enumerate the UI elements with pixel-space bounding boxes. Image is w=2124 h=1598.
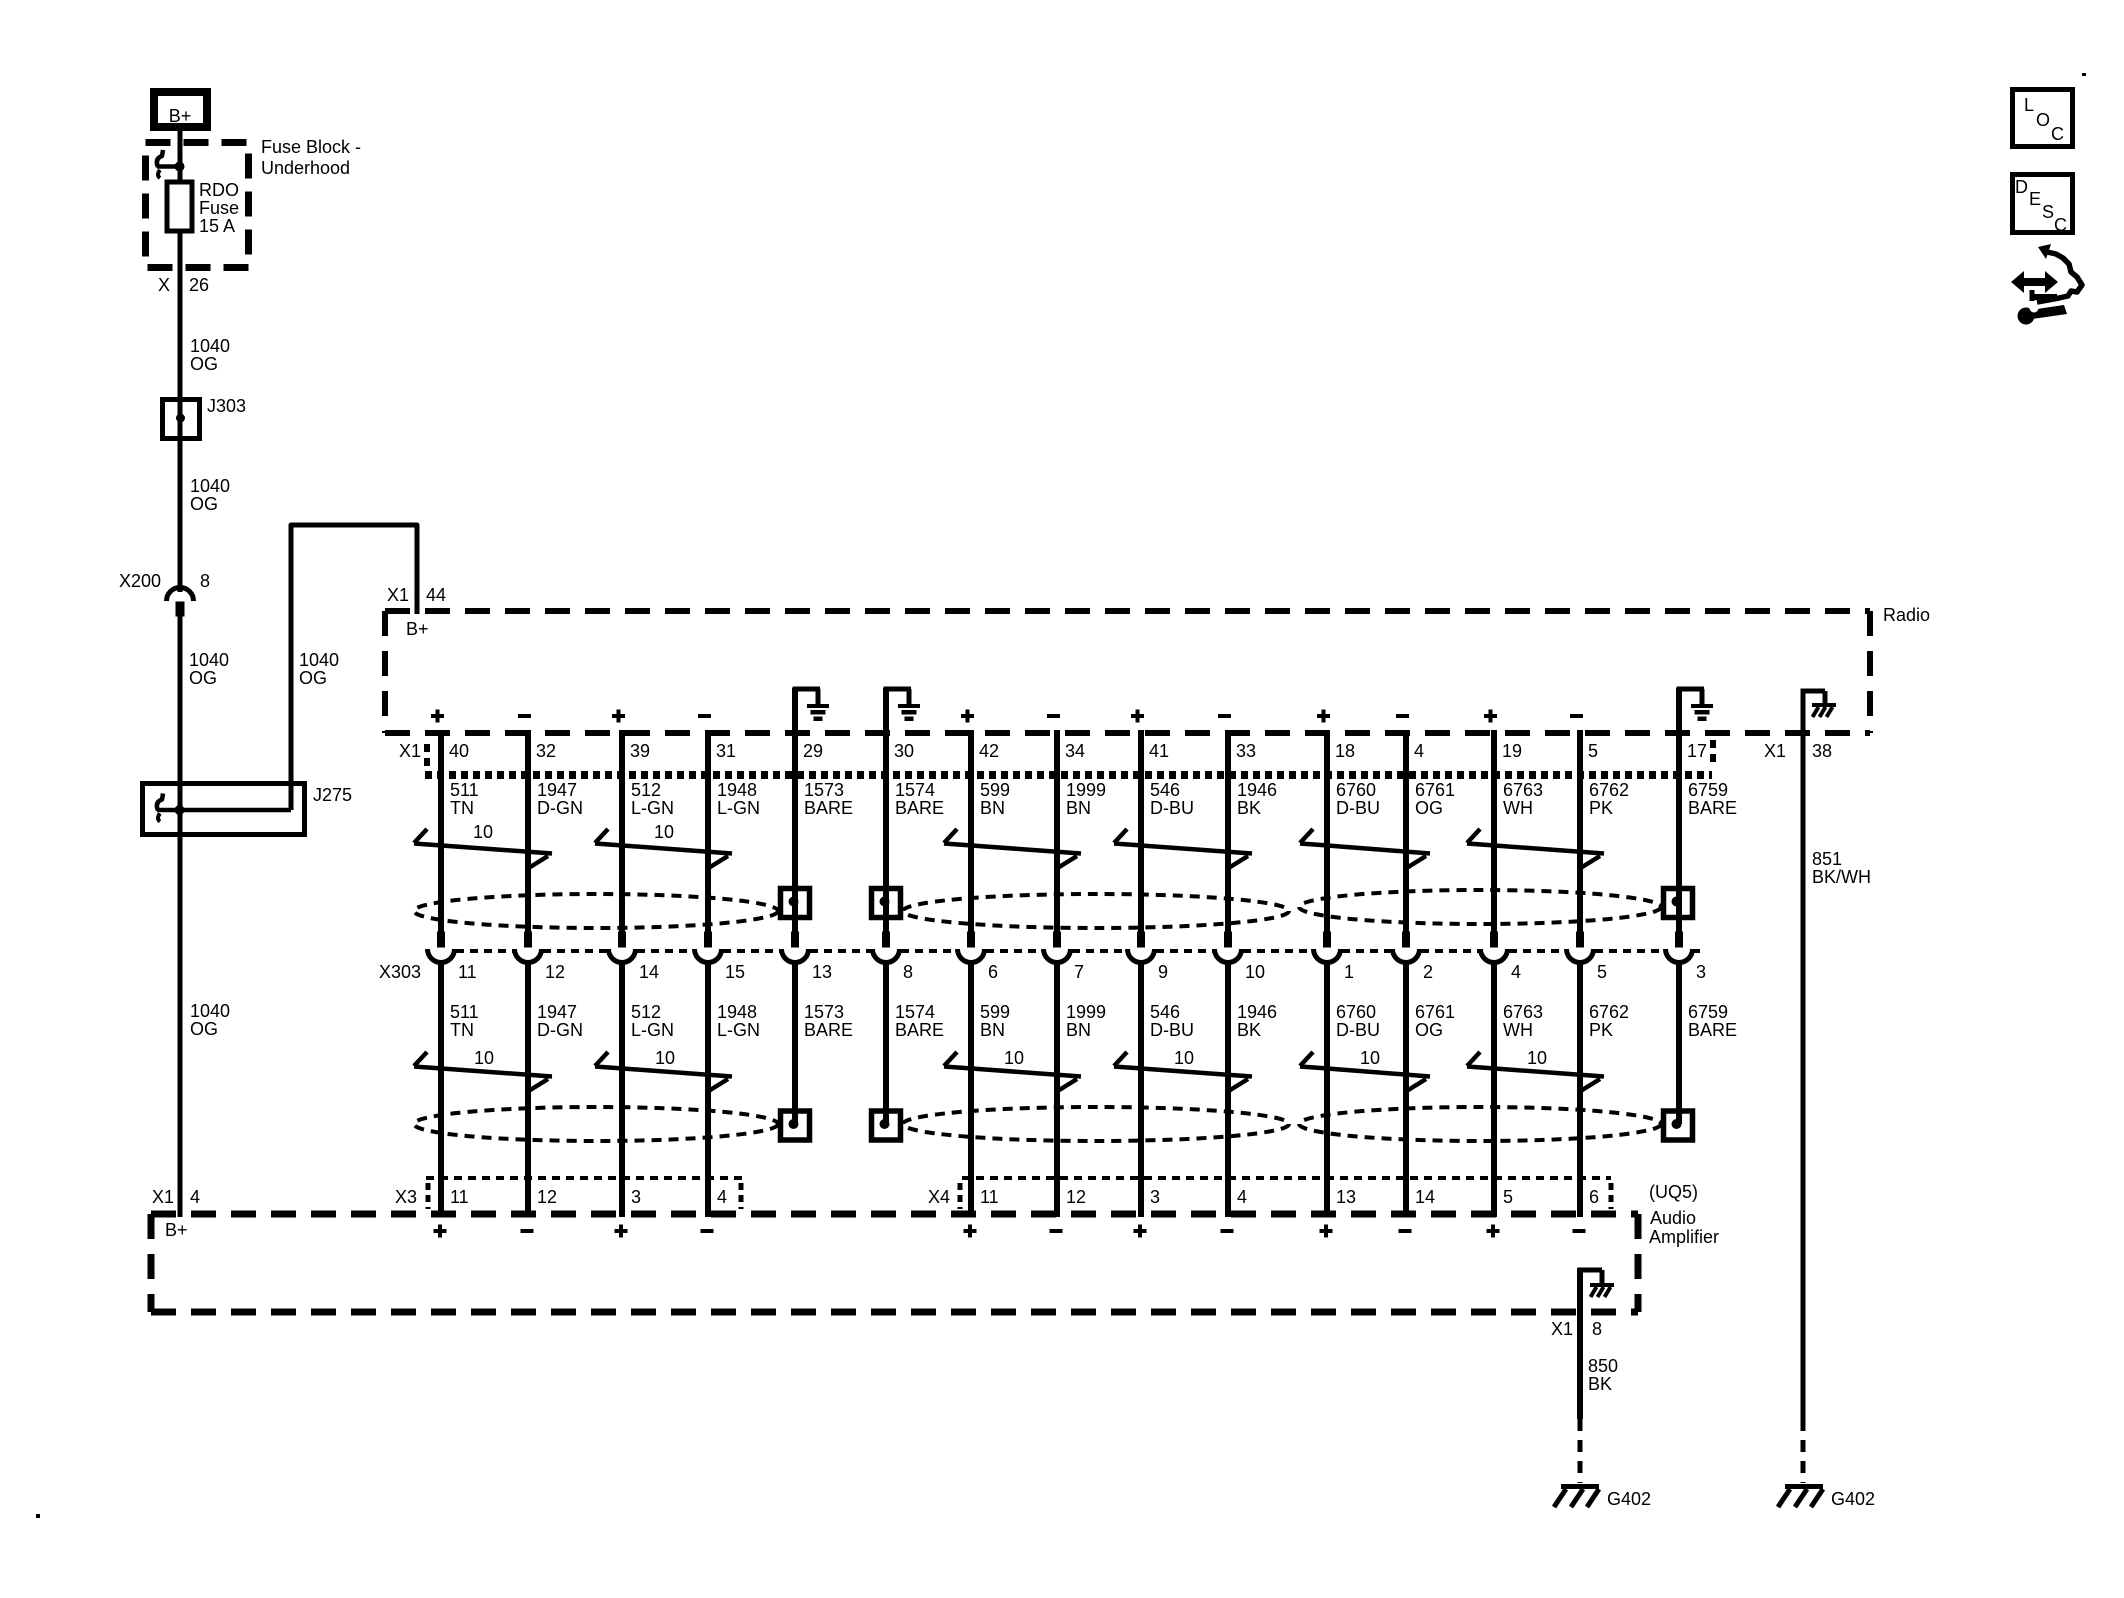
radio X1 pin 40 wire 511 TN (upper) and X303 pin 11 terminal [438,730,444,947]
polarity + (amp pin 11) [434,1229,447,1233]
polarity + (radio pin 42) [961,714,974,718]
svg-text:10: 10 [473,822,493,842]
legend icon: component outline [2037,252,2082,302]
svg-text:X3: X3 [395,1187,417,1207]
svg-text:O: O [2036,110,2050,130]
svg-text:6763: 6763 [1503,780,1543,800]
speck (top right) [2082,73,2086,76]
polarity - (amp pin 6) [1573,1229,1586,1233]
svg-text:PK: PK [1589,798,1613,818]
shield termination square (6759 upper) [1664,889,1693,918]
svg-text:X1: X1 [1551,1319,1573,1339]
wire 850 dashed lead to ground [1578,1419,1583,1483]
svg-text:G402: G402 [1831,1489,1875,1509]
polarity + (radio pin 19) [1484,714,1497,718]
svg-text:851: 851 [1812,849,1842,869]
wire 6761 OG (lower) to amp pin 14 [1403,961,1409,1217]
svg-text:1573: 1573 [804,1002,844,1022]
svg-text:13: 13 [1336,1187,1356,1207]
polarity - (radio pin 31) [698,714,711,718]
svg-text:Fuse Block -: Fuse Block - [261,137,361,157]
svg-text:X1: X1 [152,1187,174,1207]
wire 546 D-BU (lower) to amp pin 3 [1138,961,1144,1217]
polarity - (radio pin 5) [1570,714,1583,718]
svg-text:BN: BN [980,1020,1005,1040]
svg-text:1040: 1040 [190,336,230,356]
fuse block - underhood (dashed box) [146,143,249,268]
twisted pair symbol (lower, 6763/6762) [1467,1052,1604,1092]
svg-text:6: 6 [988,962,998,982]
svg-text:599: 599 [980,780,1010,800]
svg-text:WH: WH [1503,798,1533,818]
svg-text:Audio: Audio [1650,1208,1696,1228]
svg-text:X303: X303 [379,962,421,982]
svg-text:1947: 1947 [537,780,577,800]
twisted pair symbol (upper, 6763/6762) [1467,829,1604,869]
polarity - (radio pin 4) [1396,714,1409,718]
svg-text:19: 19 [1502,741,1522,761]
svg-text:E: E [2029,189,2041,209]
svg-text:10: 10 [655,1048,675,1068]
svg-text:Underhood: Underhood [261,158,350,178]
radio X1 pin 39 wire 512 L-GN (upper) and X303 pin 14 terminal [619,730,625,947]
svg-text:2: 2 [1423,962,1433,982]
svg-text:29: 29 [803,741,823,761]
svg-text:6761: 6761 [1415,1002,1455,1022]
svg-text:X: X [158,275,170,295]
svg-text:32: 32 [536,741,556,761]
svg-text:WH: WH [1503,1020,1533,1040]
svg-text:11: 11 [980,1187,999,1207]
svg-text:BARE: BARE [895,798,944,818]
radio X1 pin 19 wire 6763 WH (upper) and X303 pin 4 terminal [1491,730,1497,947]
svg-text:4: 4 [1511,962,1521,982]
svg-text:BK: BK [1237,1020,1261,1040]
svg-text:4: 4 [190,1187,200,1207]
wire 1948 L-GN (lower) to amp pin 4 [705,961,711,1217]
polarity + (amp pin 11) [964,1229,977,1233]
svg-text:3: 3 [1696,962,1706,982]
twisted pair symbol (upper, 511/1947) [414,829,552,869]
twisted pair symbol (upper, 546/1946) [1114,829,1252,869]
wire 1574 BARE (lower, shield drain) [883,961,889,1124]
svg-text:B+: B+ [169,106,192,126]
radio X1 pin 42 wire 599 BN (upper) and X303 pin 6 terminal [968,730,974,947]
svg-text:X1: X1 [399,741,421,761]
twisted pair symbol (lower, 6760/6761) [1300,1052,1430,1092]
ground symbol inside radio (pin 29) [793,687,821,692]
svg-text:1573: 1573 [804,780,844,800]
radio X1 pin 34 wire 1999 BN (upper) and X303 pin 7 terminal [1054,730,1060,947]
radio X1 pin 4 wire 6761 OG (upper) and X303 pin 2 terminal [1403,730,1409,947]
junction dot (fuse block) [175,162,185,172]
svg-text:10: 10 [1360,1048,1380,1068]
shield termination square (1574 upper) [872,889,901,918]
amp ground wire X1 pin 8 / 850 BK [1577,1268,1583,1419]
audio amplifier (dashed outline) [151,1211,1638,1218]
svg-text:10: 10 [654,822,674,842]
twisted pair symbol (upper, 599/1999) [944,829,1081,869]
shield ellipse (lower middle) [903,1107,1289,1141]
svg-text:39: 39 [630,741,650,761]
twisted pair symbol (lower, 511/1947) [414,1052,552,1092]
speck (bottom left) [36,1514,40,1518]
svg-text:S: S [2042,202,2054,222]
svg-text:512: 512 [631,1002,661,1022]
svg-text:4: 4 [1237,1187,1247,1207]
svg-text:L: L [2024,95,2034,115]
svg-text:G402: G402 [1607,1489,1651,1509]
svg-text:11: 11 [450,1187,469,1207]
svg-text:511: 511 [450,780,479,800]
radio X1 pin 41 wire 546 D-BU (upper) and X303 pin 9 terminal [1138,730,1144,947]
polarity - (radio pin 33) [1218,714,1231,718]
chassis ground symbol (amp) [1590,1283,1614,1287]
svg-text:1040: 1040 [190,1001,230,1021]
svg-text:L-GN: L-GN [631,1020,674,1040]
svg-text:1947: 1947 [537,1002,577,1022]
svg-text:B+: B+ [406,619,429,639]
radio (dashed outline) [385,608,1870,614]
polarity + (amp pin 5) [1487,1229,1500,1233]
svg-text:B+: B+ [165,1220,188,1240]
wire 511 TN (lower) to amp pin 11 [438,961,444,1217]
svg-text:D-BU: D-BU [1150,798,1194,818]
shield termination square (6759 lower) [1664,1111,1693,1140]
radio X1 pin 33 wire 1946 BK (upper) and X303 pin 10 terminal [1225,730,1231,947]
ground symbol inside radio (pin 30) [884,687,912,692]
polarity + (radio pin 40) [431,714,444,718]
svg-text:15: 15 [725,962,745,982]
twisted pair symbol (lower, 546/1946) [1114,1052,1252,1092]
svg-text:TN: TN [450,798,474,818]
terminal B+ (battery feed) [154,92,207,127]
wire 1999 BN (lower) to amp pin 12 [1054,961,1060,1217]
wire 1573 BARE (lower, shield drain) [792,961,798,1124]
shield termination square (1573 upper) [781,889,810,918]
svg-text:L-GN: L-GN [631,798,674,818]
shield termination square (1573 lower) [781,1111,810,1140]
junction dot J275 [175,805,185,815]
polarity + (radio pin 39) [612,714,625,718]
svg-text:1999: 1999 [1066,780,1106,800]
shield ellipse (lower left) [414,1107,778,1141]
svg-text:1: 1 [1344,962,1354,982]
svg-text:6760: 6760 [1336,780,1376,800]
shield ellipse (upper middle) [903,894,1289,928]
svg-text:OG: OG [190,354,218,374]
connector X200 pin 8 [167,588,194,602]
polarity - (radio pin 32) [518,714,531,718]
svg-text:1040: 1040 [189,650,229,670]
svg-text:TN: TN [450,1020,474,1040]
ground G402 (right) [1785,1484,1823,1489]
wire 512 L-GN (lower) to amp pin 3 [619,961,625,1217]
radio X1 pin 29 wire 1573 BARE (upper) and X303 pin 13 terminal [792,688,798,947]
svg-text:10: 10 [474,1048,494,1068]
shield ellipse (lower right) [1299,1107,1661,1141]
svg-text:34: 34 [1065,741,1085,761]
svg-text:OG: OG [1415,798,1443,818]
shield termination square (1574 lower) [872,1111,901,1140]
svg-text:OG: OG [189,668,217,688]
svg-text:1040: 1040 [190,476,230,496]
svg-text:D-BU: D-BU [1150,1020,1194,1040]
svg-text:J303: J303 [207,396,246,416]
svg-text:15 A: 15 A [199,216,235,236]
svg-text:1999: 1999 [1066,1002,1106,1022]
svg-text:850: 850 [1588,1356,1618,1376]
svg-text:12: 12 [1066,1187,1086,1207]
svg-text:BK/WH: BK/WH [1812,867,1871,887]
svg-text:26: 26 [189,275,209,295]
svg-text:D-GN: D-GN [537,798,583,818]
svg-text:512: 512 [631,780,661,800]
svg-text:4: 4 [1414,741,1424,761]
svg-text:8: 8 [903,962,913,982]
svg-text:1040: 1040 [299,650,339,670]
svg-text:44: 44 [426,585,446,605]
polarity - (amp pin 4) [1221,1229,1234,1233]
shield ellipse (upper left) [414,894,778,928]
svg-text:3: 3 [631,1187,641,1207]
svg-text:6760: 6760 [1336,1002,1376,1022]
svg-text:6: 6 [1589,1187,1599,1207]
svg-text:OG: OG [190,494,218,514]
wire 6760 D-BU (lower) to amp pin 13 [1324,961,1330,1217]
svg-text:10: 10 [1527,1048,1547,1068]
radio ground pin 38 wire 851 BK/WH [1801,689,1806,1419]
svg-text:C: C [2054,215,2067,235]
wire 1947 D-GN (lower) to amp pin 12 [525,961,531,1217]
svg-text:33: 33 [1236,741,1256,761]
svg-text:X200: X200 [119,571,161,591]
polarity - (amp pin 4) [701,1229,714,1233]
svg-text:10: 10 [1245,962,1265,982]
svg-text:J275: J275 [313,785,352,805]
svg-text:14: 14 [639,962,659,982]
svg-text:3: 3 [1150,1187,1160,1207]
svg-text:X1: X1 [1764,741,1786,761]
svg-text:5: 5 [1597,962,1607,982]
splice J275 [143,784,305,835]
polarity + (radio pin 41) [1131,714,1144,718]
radio X1 pin 30 wire 1574 BARE (upper) and X303 pin 8 terminal [883,688,889,947]
svg-text:6762: 6762 [1589,780,1629,800]
svg-text:BK: BK [1588,1374,1612,1394]
splice J303 [163,400,200,439]
svg-text:Radio: Radio [1883,605,1930,625]
svg-text:30: 30 [894,741,914,761]
svg-text:BARE: BARE [804,798,853,818]
svg-text:(UQ5): (UQ5) [1649,1182,1698,1202]
svg-text:Fuse: Fuse [199,198,239,218]
radio X1 pin 31 wire 1948 L-GN (upper) and X303 pin 15 terminal [705,730,711,947]
wire 6763 WH (lower) to amp pin 5 [1491,961,1497,1217]
wire 599 BN (lower) to amp pin 11 [968,961,974,1217]
radio X1 pin 5 wire 6762 PK (upper) and X303 pin 5 terminal [1577,730,1583,947]
svg-text:10: 10 [1004,1048,1024,1068]
svg-text:6763: 6763 [1503,1002,1543,1022]
svg-text:1948: 1948 [717,780,757,800]
svg-text:511: 511 [450,1002,479,1022]
svg-text:40: 40 [449,741,469,761]
svg-text:5: 5 [1588,741,1598,761]
polarity - (amp pin 12) [1050,1229,1063,1233]
svg-text:13: 13 [812,962,832,982]
svg-text:BN: BN [1066,1020,1091,1040]
svg-text:5: 5 [1503,1187,1513,1207]
bus bar hook (fuse block) [157,150,163,167]
svg-text:C: C [2051,124,2064,144]
polarity + (amp pin 3) [1134,1229,1147,1233]
connector X303 line [456,949,513,953]
ground G402 (left) [1561,1484,1599,1489]
svg-text:8: 8 [1592,1319,1602,1339]
wire 1946 BK (lower) to amp pin 4 [1225,961,1231,1217]
svg-text:18: 18 [1335,741,1355,761]
svg-text:BN: BN [980,798,1005,818]
polarity + (radio pin 18) [1317,714,1330,718]
polarity + (amp pin 3) [615,1229,628,1233]
svg-text:8: 8 [200,571,210,591]
svg-text:10: 10 [1174,1048,1194,1068]
connector X1 strip (radio) [425,771,1712,779]
svg-text:BARE: BARE [804,1020,853,1040]
polarity - (amp pin 14) [1399,1229,1412,1233]
svg-text:6762: 6762 [1589,1002,1629,1022]
wire 6759 BARE (lower, shield drain) [1676,961,1682,1124]
twisted pair symbol (lower, 512/1948) [595,1052,732,1092]
connector X4 [962,1176,1611,1180]
svg-text:D-BU: D-BU [1336,1020,1380,1040]
svg-text:BK: BK [1237,798,1261,818]
svg-text:BARE: BARE [1688,1020,1737,1040]
wire 1040 OG main feed (upper) [178,131,183,592]
svg-text:1574: 1574 [895,1002,935,1022]
svg-text:1574: 1574 [895,780,935,800]
twisted pair symbol (upper, 512/1948) [595,829,732,869]
svg-text:D: D [2015,177,2028,197]
svg-text:BARE: BARE [1688,798,1737,818]
svg-text:38: 38 [1812,741,1832,761]
connector X3 [426,1176,744,1180]
wire 6762 PK (lower) to amp pin 6 [1577,961,1583,1217]
legend box DESC [2013,175,2073,233]
chassis ground symbol (radio pin 38) [1812,703,1836,707]
fuse RDO body [167,182,192,231]
svg-text:X4: X4 [928,1187,950,1207]
svg-text:7: 7 [1074,962,1084,982]
svg-text:14: 14 [1415,1187,1435,1207]
wire 851 dashed lead to ground [1801,1419,1806,1483]
svg-text:1946: 1946 [1237,780,1277,800]
svg-text:D-GN: D-GN [537,1020,583,1040]
shield ellipse (upper right) [1299,890,1661,924]
ground symbol inside radio (pin 17) [1677,687,1705,692]
svg-text:BARE: BARE [895,1020,944,1040]
svg-text:OG: OG [190,1019,218,1039]
svg-text:OG: OG [299,668,327,688]
svg-text:Amplifier: Amplifier [1649,1227,1719,1247]
svg-text:546: 546 [1150,1002,1180,1022]
svg-text:PK: PK [1589,1020,1613,1040]
svg-text:31: 31 [716,741,736,761]
svg-text:OG: OG [1415,1020,1443,1040]
polarity + (amp pin 13) [1320,1229,1333,1233]
svg-text:11: 11 [458,962,477,982]
svg-text:599: 599 [980,1002,1010,1022]
polarity - (radio pin 34) [1047,714,1060,718]
svg-text:1946: 1946 [1237,1002,1277,1022]
legend icon: double arrow [2021,278,2049,286]
svg-text:17: 17 [1687,741,1707,761]
svg-text:L-GN: L-GN [717,1020,760,1040]
svg-text:6759: 6759 [1688,780,1728,800]
svg-text:6759: 6759 [1688,1002,1728,1022]
legend box LOC [2013,90,2073,147]
svg-text:41: 41 [1149,741,1169,761]
legend icon: wrench [2018,308,2035,325]
radio X1 pin 17 wire 6759 BARE (upper) and X303 pin 3 terminal [1676,688,1682,947]
svg-text:4: 4 [717,1187,727,1207]
radio X1 pin 32 wire 1947 D-GN (upper) and X303 pin 12 terminal [525,730,531,947]
wire 1040 OG main feed (lower) [178,616,183,1217]
svg-text:1948: 1948 [717,1002,757,1022]
svg-text:D-BU: D-BU [1336,798,1380,818]
svg-text:9: 9 [1158,962,1168,982]
svg-text:6761: 6761 [1415,780,1455,800]
svg-text:42: 42 [979,741,999,761]
twisted pair symbol (lower, 599/1999) [944,1052,1081,1092]
svg-text:546: 546 [1150,780,1180,800]
svg-text:12: 12 [545,962,565,982]
wire 1040 OG branch to radio [291,525,417,810]
svg-text:RDO: RDO [199,180,239,200]
svg-text:L-GN: L-GN [717,798,760,818]
polarity - (amp pin 12) [521,1229,534,1233]
radio X1 pin 18 wire 6760 D-BU (upper) and X303 pin 1 terminal [1324,730,1330,947]
svg-text:12: 12 [537,1187,557,1207]
twisted pair symbol (upper, 6760/6761) [1300,829,1430,869]
svg-text:BN: BN [1066,798,1091,818]
svg-text:X1: X1 [387,585,409,605]
